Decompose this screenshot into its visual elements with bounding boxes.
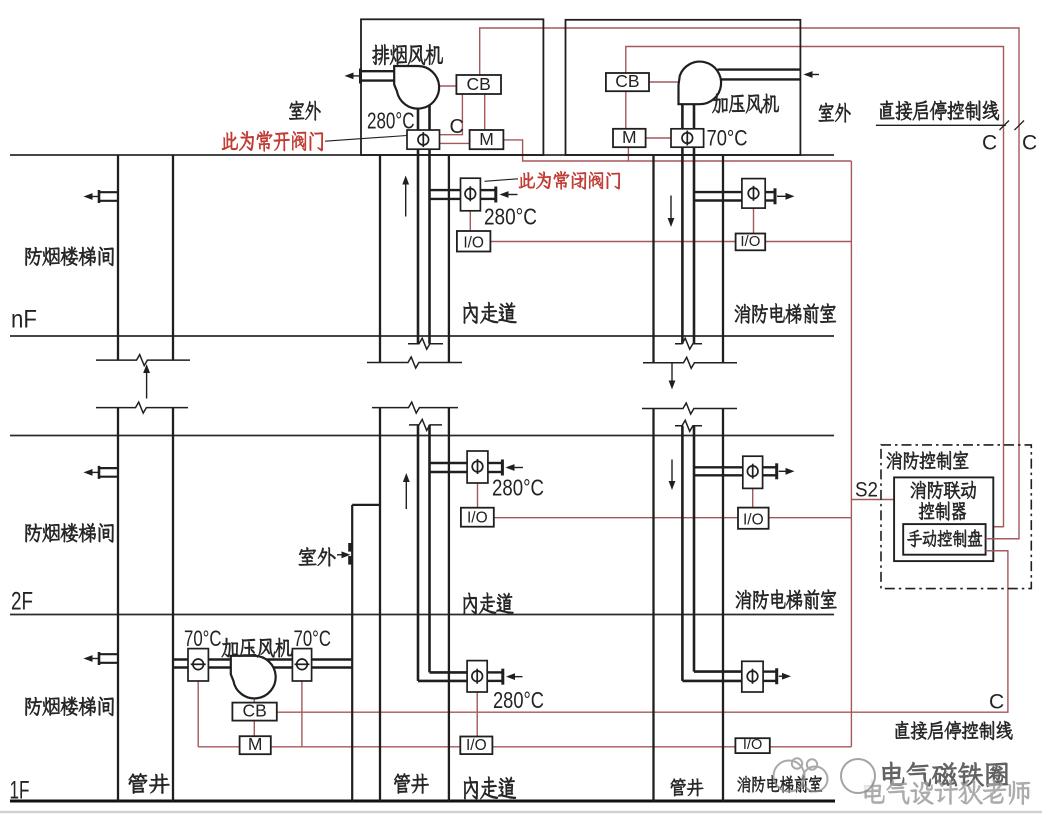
smoke fan machine room box xyxy=(361,19,543,155)
svg-text:nF: nF xyxy=(11,306,37,334)
svg-text:S2: S2 xyxy=(855,479,878,502)
circuit breaker CB pressurization fan 1F xyxy=(232,703,276,721)
svg-text:70°C: 70°C xyxy=(707,126,748,151)
label 加压风机 xyxy=(222,638,292,658)
valve pressurization damper 2F front-room xyxy=(743,456,763,488)
wire: M2 to valve2 xyxy=(646,137,671,139)
pressurization fan machine room box xyxy=(566,20,801,155)
svg-text:280°C: 280°C xyxy=(484,204,537,230)
valve FD 280C smoke-fan (roof) xyxy=(407,130,440,149)
wire: CB2 to M2 xyxy=(625,91,627,129)
label 此为常闭阀门 xyxy=(519,171,620,189)
valve FD 70C pressurization-fan (roof) xyxy=(671,129,704,147)
nF floor line xyxy=(10,335,834,337)
1F ground line xyxy=(10,800,835,803)
stairwell air outlet 2F xyxy=(99,467,118,469)
tick mark on wire 2 xyxy=(1015,121,1025,131)
wire: 2F left valve to I/O xyxy=(477,483,479,509)
corridor valve outlet 2F xyxy=(488,462,503,464)
valve pressurization damper 1F front-room xyxy=(742,661,763,692)
wire: nF left valve to I/O xyxy=(469,211,471,233)
wire: 2F right valve to I/O xyxy=(752,488,754,509)
label 室外 xyxy=(289,101,320,121)
pressurization duct nF branch xyxy=(694,191,742,193)
wire: M2 down to monitoring bus xyxy=(627,147,629,161)
wire: nF right valve to I/O xyxy=(753,208,755,235)
down arrow pressurization duct 2F xyxy=(671,460,673,485)
label 直接启停控制线 xyxy=(880,101,999,121)
fan: pressurization fan (roof) xyxy=(679,62,722,105)
intake arrow xyxy=(809,74,819,76)
svg-text:70°C: 70°C xyxy=(294,626,332,651)
wire: CB2 to fan2 xyxy=(649,81,679,83)
I/O module 2F corridor xyxy=(461,508,494,527)
valve pressurization damper nF front-room xyxy=(742,179,765,209)
break symbols elevator shaft xyxy=(643,357,737,368)
corridor valve outlet nF xyxy=(480,189,495,191)
svg-text:C: C xyxy=(1022,132,1037,155)
break symbols corridor shaft xyxy=(367,357,462,368)
pressurization duct right wall xyxy=(693,100,696,344)
monitor module M pressurization fan roof xyxy=(613,129,646,147)
corridor valve outlet 1F xyxy=(487,671,503,673)
outdoor intake arrow (2F) xyxy=(337,554,345,556)
smoke fan exhaust duct to outdoor xyxy=(361,70,395,72)
wire: pressurization-fan CB to controller (top) xyxy=(626,47,1004,527)
monitor module M smoke fan xyxy=(470,130,504,149)
label 室外 xyxy=(819,103,851,123)
svg-text:I/O: I/O xyxy=(740,233,760,250)
elevator shaft left wall xyxy=(652,155,654,363)
label 直接启停控制线 xyxy=(895,721,1012,740)
fan: smoke exhaust fan (roof) xyxy=(394,66,439,109)
svg-text:70°C: 70°C xyxy=(184,626,222,651)
corridor shaft right wall xyxy=(448,155,450,363)
down arrow pressurization duct nF xyxy=(670,196,672,222)
wire: S2 line to linkage controller xyxy=(851,499,894,501)
stairwell air outlet 1F xyxy=(99,653,118,655)
label 电气设计狄老师 xyxy=(864,780,1030,805)
valve FD 70C 1F-fan left xyxy=(188,649,208,681)
svg-text:280°C: 280°C xyxy=(367,108,415,134)
label 内走道 xyxy=(464,593,514,614)
front-room valve outlet nF xyxy=(763,191,775,193)
wire: nF I/O row xyxy=(474,241,852,243)
faint gray bottom border xyxy=(0,811,1042,814)
label 消防电梯前室 xyxy=(738,775,822,792)
label 电气磁铁圈 xyxy=(882,762,1007,787)
valve smoke damper 2F corridor xyxy=(467,451,488,483)
svg-text:280°C: 280°C xyxy=(492,475,544,501)
outdoor intake duct (2F) xyxy=(351,505,353,801)
2F ceiling line xyxy=(10,435,834,437)
valve smoke damper nF corridor xyxy=(461,178,481,211)
label 控制器 xyxy=(919,502,966,521)
wire: valve to M1 xyxy=(439,142,469,144)
smoke exhaust duct right wall xyxy=(428,100,431,344)
svg-text:C: C xyxy=(982,132,997,155)
svg-text:I/O: I/O xyxy=(463,234,484,251)
exhaust outlet arrow xyxy=(350,75,361,77)
pressurization duct 2F branch xyxy=(694,466,743,468)
svg-text:I/O: I/O xyxy=(743,512,764,529)
wire: 1F I/O row (valves, M3, I/O boxes to bus) xyxy=(198,746,851,748)
break symbols stairwell shaft xyxy=(96,355,190,366)
label 管井 xyxy=(394,773,429,793)
svg-text:1F: 1F xyxy=(10,777,30,805)
svg-text:C: C xyxy=(450,116,464,138)
monitor module M pressurization fan 1F xyxy=(240,736,271,754)
intake grille bars xyxy=(348,543,352,552)
smoke exhaust duct left wall xyxy=(417,100,420,344)
wire: 2F I/O row xyxy=(477,517,851,519)
svg-text:280°C: 280°C xyxy=(493,687,544,713)
2F floor line xyxy=(10,614,834,616)
circuit breaker CB pressurization fan roof xyxy=(606,73,649,91)
wire: CB1 to M1 xyxy=(484,94,486,130)
manual control panel box xyxy=(903,524,985,555)
front-room valve outlet 2F xyxy=(763,466,777,468)
pressurization duct 1F elbow xyxy=(694,670,742,673)
svg-text:C: C xyxy=(989,691,1004,714)
smoke duct nF branch xyxy=(430,189,461,191)
wire: CB3 to M3 xyxy=(253,721,255,737)
wire: I/O monitoring bus (right vertical) xyxy=(850,161,852,747)
label 防烟楼梯间 xyxy=(25,697,113,716)
wire: direct start/stop line (bottom) CB3 to manual panel xyxy=(277,551,1008,712)
label 此为常开阀门 xyxy=(222,131,323,152)
elevator shaft right wall xyxy=(722,155,724,363)
label 手动控制盘 xyxy=(907,529,982,547)
svg-text:I/O: I/O xyxy=(743,737,762,753)
svg-text:M: M xyxy=(622,127,637,147)
fire linkage controller box xyxy=(894,477,993,561)
label 消防控制室 xyxy=(887,451,969,470)
label 排烟风机 xyxy=(372,44,442,65)
wire: controller right edge to inner vertical xyxy=(993,526,1003,528)
valve smoke damper 1F corridor xyxy=(467,661,487,692)
svg-text:M: M xyxy=(248,734,263,754)
up arrow smoke duct nF xyxy=(405,181,407,217)
label 消防电梯前室 xyxy=(735,303,836,323)
wire: smoke-fan CB to control room, direct start/stop line (top) xyxy=(480,28,1019,539)
roof floor line xyxy=(10,154,834,156)
wire: manual panel right connections xyxy=(986,538,1019,540)
fan: pressurization fan (1F) xyxy=(231,656,276,699)
fire control room dashed box xyxy=(881,445,1031,589)
I/O module 1F corridor xyxy=(460,737,492,755)
pressurization fan intake duct from outdoor xyxy=(718,68,801,70)
wire: fan3 to CB3 xyxy=(253,698,255,703)
watermark logo circles xyxy=(774,758,828,791)
stairwell air outlet nF xyxy=(99,191,118,193)
wire: CB1 down to valve (C cable) xyxy=(439,94,462,135)
corridor shaft left wall xyxy=(379,155,381,363)
I/O module 1F front-room xyxy=(735,738,769,753)
underline of top direct control line label xyxy=(876,124,1006,126)
I/O module 2F front-room xyxy=(738,508,769,529)
label 管井 xyxy=(671,778,704,796)
up arrow stairwell gap xyxy=(146,369,148,398)
leader line normally-open valve note xyxy=(325,136,407,142)
smoke duct 2F branch xyxy=(430,462,468,464)
wire: 1F left 70C valve drop xyxy=(197,681,199,747)
wire: fan1 to CB1 xyxy=(439,85,456,87)
label 加压风机 xyxy=(712,94,778,114)
label 室外 xyxy=(299,547,336,566)
1F fan duct (horizontal) xyxy=(173,658,352,660)
stairwell shaft left wall xyxy=(117,155,119,360)
I/O module nF front-room xyxy=(736,234,766,251)
svg-text:CB: CB xyxy=(242,700,266,720)
svg-text:2F: 2F xyxy=(11,588,33,616)
label 内走道 xyxy=(464,777,516,800)
down arrow pressurization duct gap xyxy=(671,363,673,385)
svg-text:M: M xyxy=(479,129,494,149)
smoke duct 1F elbow xyxy=(430,671,468,674)
wire: 1F right 70C valve drop xyxy=(301,681,303,747)
break symbols pressurization duct xyxy=(675,338,702,349)
stairwell shaft right wall xyxy=(172,155,174,360)
wire: M1 down to monitoring bus xyxy=(503,140,851,161)
svg-text:I/O: I/O xyxy=(467,510,488,527)
label 内走道 xyxy=(464,302,517,323)
label 管井 xyxy=(129,773,170,793)
circuit breaker CB smoke fan xyxy=(456,75,501,94)
svg-text:CB: CB xyxy=(467,74,491,94)
front-room valve outlet 1F xyxy=(763,670,777,672)
leader line normally-closed valve note xyxy=(485,179,519,182)
label 防烟楼梯间 xyxy=(25,247,113,266)
break symbols smoke duct xyxy=(408,338,443,349)
label 消防电梯前室 xyxy=(736,589,837,609)
pressurization duct left wall xyxy=(681,100,684,344)
svg-text:CB: CB xyxy=(615,71,639,91)
up arrow smoke duct 2F xyxy=(405,478,407,509)
label 消防联动 xyxy=(911,481,976,499)
valve FD 70C 1F-fan right xyxy=(292,649,311,681)
tick mark on wire 1 xyxy=(1000,121,1010,131)
label 防烟楼梯间 xyxy=(25,523,113,542)
svg-text:I/O: I/O xyxy=(466,737,487,754)
wire: 1F middle valve to I/O xyxy=(476,692,478,738)
I/O module nF corridor xyxy=(457,231,491,252)
